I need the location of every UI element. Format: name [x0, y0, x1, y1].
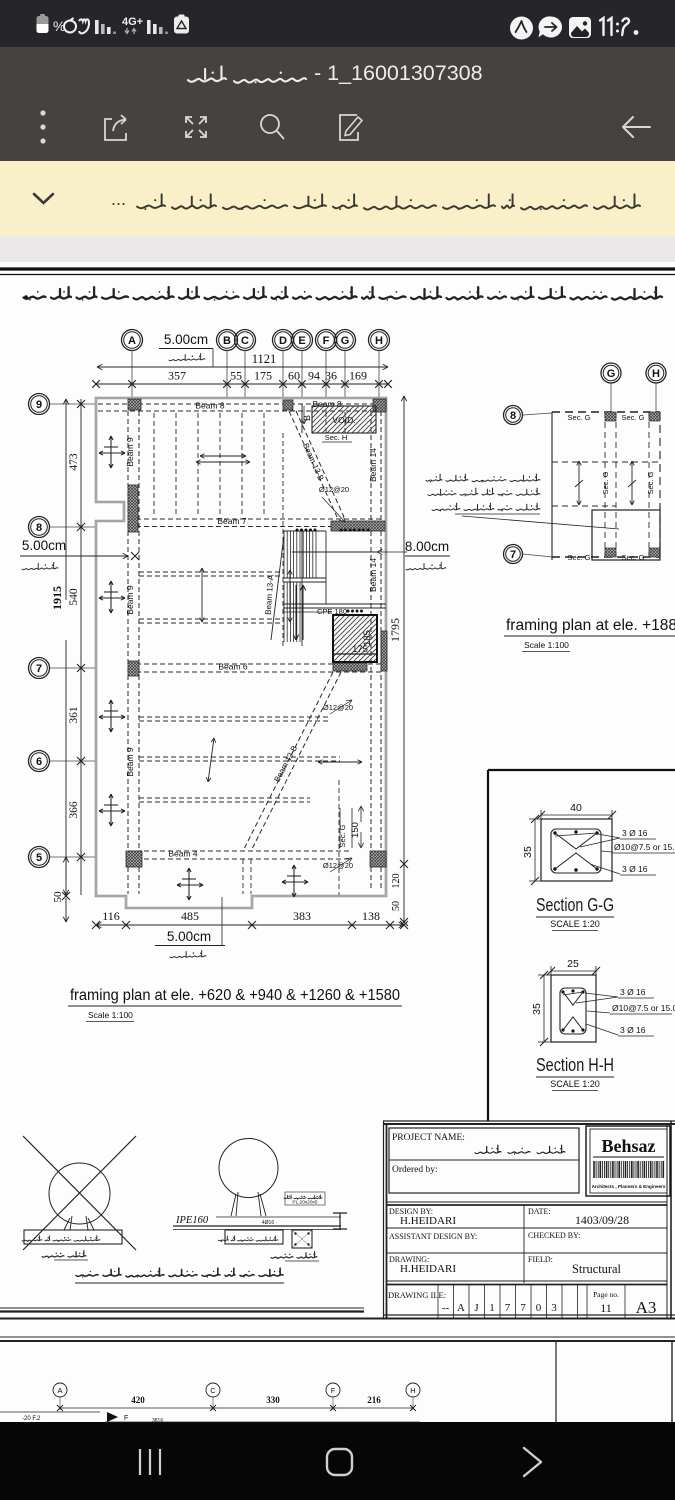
span arrows mid bay [289, 570, 291, 622]
toolbar: edit icon [340, 115, 358, 140]
title block bottom border [384, 1314, 675, 1316]
svg-text:A: A [457, 1302, 465, 1314]
section G-G dim 35 [534, 819, 536, 881]
persian note line [612, 296, 662, 299]
svg-text:Structural: Structural [572, 1261, 621, 1276]
beam 7 dashed [128, 518, 384, 520]
svg-text:1: 1 [489, 1302, 495, 1314]
grid bubble B [217, 330, 238, 351]
grid leader [226, 351, 228, 399]
small plan corner columns [605, 412, 616, 421]
svg-text:5.00cm: 5.00cm [164, 332, 208, 347]
grid leader [378, 351, 380, 399]
wrong method caption [68, 1256, 86, 1257]
dim 150 [360, 806, 362, 822]
svg-text:485: 485 [181, 909, 199, 923]
svg-text:Beam 13-A: Beam 13-A [264, 574, 276, 615]
svg-text:IPE160: IPE160 [175, 1215, 209, 1226]
svg-text:DRAWING ILE:: DRAWING ILE: [388, 1290, 446, 1300]
svg-text:framing plan at ele. +620 & +9: framing plan at ele. +620 & +940 & +1260… [70, 987, 400, 1004]
beam 13-B diagonal [289, 411, 337, 517]
dim 50 bottom left [65, 857, 67, 880]
caption underline [75, 1282, 284, 1284]
svg-text:Beam 7: Beam 7 [217, 516, 247, 526]
row leader [50, 856, 97, 858]
bottom grid bubble H [406, 1383, 420, 1397]
svg-text:G: G [341, 335, 350, 347]
section H-H rebar top [561, 990, 564, 993]
svg-text:35: 35 [522, 846, 534, 858]
svg-text:framing plan at ele. +1880: framing plan at ele. +1880 [506, 617, 675, 634]
section H-H dim 25 [551, 970, 596, 972]
svg-text:J: J [474, 1302, 479, 1314]
section G-G dim 40 [541, 814, 612, 816]
void hatched area [312, 406, 376, 433]
svg-text:Section H-H: Section H-H [536, 1055, 614, 1075]
svg-text:150: 150 [350, 822, 361, 838]
column 175 hatched [333, 615, 377, 662]
svg-text:Ø10@7.5 or 15.0: Ø10@7.5 or 15.0 [612, 1003, 675, 1013]
stair landing lines [283, 577, 326, 579]
svg-text:SCALE 1:20: SCALE 1:20 [550, 1079, 600, 1089]
svg-text:138: 138 [362, 909, 380, 923]
G col dashed into void [344, 412, 346, 433]
status: battery icon [37, 16, 49, 33]
span symbol [177, 884, 203, 886]
table mid vertical [523, 1205, 525, 1283]
grid bubble H [646, 363, 666, 383]
svg-text:PROJECT NAME:: PROJECT NAME: [392, 1133, 465, 1143]
right method beam lines [173, 1225, 341, 1227]
column A9 [128, 399, 141, 410]
toolbar title persian "readonly" [234, 78, 306, 83]
grid leader [325, 351, 327, 399]
sketch area bottom lines [0, 1307, 364, 1309]
svg-text:8: 8 [36, 522, 42, 534]
right method caption [297, 1257, 317, 1259]
title block top border [383, 1120, 675, 1122]
stair treads upper [283, 531, 285, 578]
svg-text:PL 20x20x5: PL 20x20x5 [292, 1200, 317, 1206]
section H-H dim 35 [543, 975, 545, 1042]
svg-text:Ø12@20: Ø12@20 [323, 861, 353, 870]
row leader [50, 526, 97, 528]
top rule thick [0, 267, 675, 270]
svg-text:5: 5 [36, 852, 42, 864]
svg-text:C: C [241, 335, 249, 347]
wrong method base box [24, 1230, 122, 1244]
rebar dots row 8 [296, 529, 299, 532]
grid leader [131, 351, 133, 399]
building outline wall [96, 398, 386, 908]
svg-text:A: A [57, 1386, 62, 1395]
column strip right [381, 631, 387, 671]
svg-text:4Ø16: 4Ø16 [262, 1220, 274, 1226]
svg-text:Beam 6: Beam 6 [218, 662, 248, 672]
svg-text:CHECKED BY:: CHECKED BY: [528, 1231, 580, 1240]
dim 1915 line [65, 399, 67, 600]
small plan row leaders [523, 413, 552, 415]
column H5 [370, 851, 386, 867]
toolbar: kebab menu icon [40, 110, 45, 115]
status: chat bubble icon [538, 16, 562, 37]
svg-text:6: 6 [36, 756, 42, 768]
bottom dim line [60, 1407, 413, 1409]
dim segments [96, 383, 388, 385]
grid leader [344, 351, 346, 399]
section H-H stirrup [560, 988, 586, 1034]
svg-text:Scale 1:100: Scale 1:100 [524, 640, 569, 650]
svg-text:1121: 1121 [252, 352, 277, 366]
banner persian text [594, 205, 640, 209]
section G-G outer [541, 819, 612, 881]
project persian handwriting [537, 1152, 565, 1154]
svg-text:Beam 8: Beam 8 [195, 401, 225, 411]
page gray strip [0, 236, 675, 262]
grid leader [244, 351, 246, 399]
svg-text:383: 383 [293, 909, 311, 923]
banner chevron [34, 194, 53, 203]
bottom grid bubble C [206, 1383, 220, 1397]
section G-G rebar bottom [553, 867, 556, 870]
navigation bar background [0, 1422, 675, 1500]
dim 1121 [97, 366, 264, 368]
beam 13-A diagonal [271, 535, 284, 640]
grid bubble H [369, 330, 390, 351]
svg-text:Sec. G: Sec. G [622, 413, 645, 422]
wrong method tank circle [49, 1163, 110, 1224]
toolbar: back arrow [623, 117, 650, 137]
stair arrow [295, 585, 297, 640]
svg-text:7: 7 [520, 1302, 526, 1314]
svg-text:Beam 12-B: Beam 12-B [272, 744, 299, 784]
grid bubble D [273, 330, 294, 351]
right method legs [231, 1192, 266, 1216]
svg-text:9: 9 [36, 399, 42, 411]
svg-text:Section G-G: Section G-G [536, 895, 614, 915]
svg-text:94: 94 [308, 369, 320, 383]
svg-text:G: G [607, 368, 616, 380]
beam 6 dashed [128, 663, 384, 665]
svg-text:FIELD:: FIELD: [528, 1255, 553, 1264]
rebar dots mid [347, 610, 350, 613]
bottom row divider [387, 1280, 668, 1282]
mid bay joists [139, 571, 283, 573]
svg-text:D: D [279, 335, 287, 347]
svg-text:36: 36 [325, 369, 337, 383]
svg-text:3 Ø 16: 3 Ø 16 [622, 828, 648, 838]
status bar background [0, 0, 675, 47]
status: time 11:20 persian [600, 18, 604, 35]
small plan span arrows [578, 461, 580, 505]
stair treads lower [283, 582, 285, 642]
tiny plate label [285, 1192, 325, 1205]
svg-text:5.00cm: 5.00cm [22, 538, 66, 553]
svg-text:1915: 1915 [50, 586, 64, 610]
F col dashed [325, 412, 327, 433]
svg-text:185: 185 [362, 630, 373, 646]
wrong method legs [64, 1216, 94, 1230]
small plan leaders [610, 383, 612, 412]
beam 12-B diagonal [243, 672, 333, 851]
dim 1795 [403, 396, 405, 600]
svg-text:A3: A3 [636, 1298, 657, 1317]
svg-text:Beam 14: Beam 14 [368, 558, 378, 592]
svg-text:Ordered by:: Ordered by: [392, 1165, 438, 1175]
svg-text:Beam 9: Beam 9 [125, 585, 135, 615]
section G-G stirrup [551, 829, 601, 873]
nav: back icon [524, 1448, 541, 1476]
svg-text:SCALE 1:20: SCALE 1:20 [550, 919, 600, 929]
span symbol [99, 810, 125, 812]
svg-text:Beam 9: Beam 9 [125, 437, 135, 467]
wrong method X cross [23, 1136, 136, 1250]
svg-text:H: H [652, 368, 660, 380]
column detail box [292, 1230, 312, 1248]
svg-text:F: F [331, 1386, 336, 1395]
svg-text:116: 116 [102, 909, 120, 923]
section G-G rebar top [553, 831, 556, 834]
project name box [389, 1128, 579, 1193]
small plan interior dashed [552, 461, 660, 463]
svg-text:F: F [323, 335, 330, 347]
column A8 tall [128, 485, 138, 532]
svg-text:25: 25 [567, 958, 579, 970]
behsaz logo box [586, 1126, 670, 1196]
bottom grid bubble A [53, 1383, 67, 1397]
svg-text:3 Ø 16: 3 Ø 16 [620, 987, 646, 997]
next sheet top lines [0, 1336, 675, 1338]
svg-text:60: 60 [288, 369, 300, 383]
beam 14 dashed vertical [370, 411, 372, 890]
svg-text:3816: 3816 [152, 1418, 163, 1424]
svg-text:Beam 13-B: Beam 13-B [301, 442, 326, 482]
span arrows mid2 [201, 568, 203, 622]
svg-text:Sec. G: Sec. G [568, 553, 591, 562]
svg-text:7: 7 [510, 549, 516, 561]
beam 4 dashed [128, 850, 350, 852]
stair side rails [282, 433, 284, 646]
svg-text:F: F [124, 1415, 128, 1422]
beam12 end verticals [242, 859, 244, 894]
row leader [50, 760, 97, 762]
status: photo icon [569, 17, 591, 38]
svg-text:ASSISTANT DESIGN BY:: ASSISTANT DESIGN BY: [389, 1232, 477, 1241]
bottom grid bubble F [326, 1383, 340, 1397]
svg-text:120: 120 [391, 874, 402, 889]
persian annotation tank load [510, 480, 540, 482]
svg-text:--: -- [442, 1302, 450, 1314]
nav: home icon [327, 1449, 352, 1475]
right bay vertical dashed [338, 780, 340, 895]
svg-text:7: 7 [505, 1302, 511, 1314]
next sheet right border [555, 1341, 557, 1422]
svg-text:B: B [223, 335, 231, 347]
svg-text:35: 35 [531, 1003, 543, 1015]
svg-text:H: H [375, 335, 383, 347]
svg-text:8: 8 [510, 410, 516, 422]
section H-H rebar bottom [561, 1028, 564, 1031]
svg-text:CPE 180: CPE 180 [317, 607, 347, 616]
column A5 [126, 851, 142, 867]
grid bubble G [335, 330, 356, 351]
behsaz barcode lines [593, 1161, 595, 1178]
title block right border [666, 1124, 668, 1318]
grid bubble 7 [29, 658, 50, 679]
title block divider [387, 1201, 668, 1203]
span symbol [99, 716, 125, 718]
grid bubble 9 [29, 394, 50, 415]
span symbol [99, 452, 125, 454]
svg-text:VOID.: VOID. [332, 415, 355, 425]
svg-text:7: 7 [36, 663, 42, 675]
beam end I symbol [333, 1213, 347, 1229]
svg-text:B: B [302, 415, 312, 421]
svg-text:3 Ø 16: 3 Ø 16 [620, 1025, 646, 1035]
svg-text:C: C [210, 1386, 216, 1395]
landing line right [292, 551, 377, 553]
nav: recents icon [139, 1449, 141, 1475]
grid bubble F [316, 330, 337, 351]
right method tank circle [219, 1139, 278, 1198]
small plan col lines [604, 412, 606, 557]
grid bubble C [235, 330, 256, 351]
column strip row8 [331, 521, 385, 531]
svg-text:Architects , Planners & Engine: Architects , Planners & Engineers [592, 1184, 666, 1189]
svg-text:4G+: 4G+ [122, 16, 143, 28]
svg-text:0: 0 [536, 1302, 542, 1314]
svg-text:DATE:: DATE: [528, 1207, 551, 1216]
grid bubble 7 [504, 545, 523, 564]
svg-text:3 Ø 16: 3 Ø 16 [622, 864, 648, 874]
svg-text:Sec. G: Sec. G [568, 413, 591, 422]
span arrows low bay [318, 761, 362, 763]
grid bubble 8 [504, 406, 523, 425]
svg-text:357: 357 [168, 369, 186, 383]
banner background [0, 161, 675, 236]
toolbar: search icon [261, 115, 279, 133]
svg-text:361: 361 [68, 706, 80, 724]
svg-text:50: 50 [391, 901, 402, 911]
svg-text:Sec. G: Sec. G [622, 553, 645, 562]
status: signal bars 1 [95, 20, 99, 34]
status: signal bars 2 [147, 20, 151, 34]
grid bubble 6 [29, 751, 50, 772]
toolbar background [0, 47, 675, 161]
grid leader [301, 351, 303, 399]
svg-text:366: 366 [68, 801, 80, 819]
right method base box [225, 1230, 283, 1244]
document page background [0, 262, 675, 1422]
dim segments left [80, 399, 82, 895]
svg-text:Beam 14: Beam 14 [368, 448, 378, 482]
grid bubble G [601, 363, 621, 383]
svg-text:Behsaz: Behsaz [602, 1136, 656, 1156]
top rule thin [0, 274, 675, 276]
small plan boundary [551, 412, 553, 560]
column strip under 175 [333, 663, 367, 671]
span symbol [99, 597, 125, 599]
svg-text:8.00cm: 8.00cm [405, 539, 449, 554]
span arrows low2 [208, 738, 214, 782]
svg-text:Ø10@7.5 or 15.0: Ø10@7.5 or 15.0 [614, 842, 675, 852]
svg-text:Page no.: Page no. [593, 1290, 619, 1299]
column H9 [373, 399, 386, 412]
svg-text:40: 40 [570, 802, 582, 814]
svg-text:Ø12@20: Ø12@20 [323, 703, 353, 712]
svg-text:Sec. H: Sec. H [325, 433, 348, 442]
bottom dim chain [96, 924, 404, 926]
svg-text:175: 175 [254, 369, 272, 383]
svg-text:Ø12@20: Ø12@20 [319, 485, 349, 494]
grid leader [282, 351, 284, 399]
title block left border [383, 1121, 385, 1318]
span arrows top bay [196, 461, 250, 463]
grid bubble A [122, 330, 143, 351]
sections sheet border [487, 770, 489, 1121]
beam 8 dashed [98, 403, 384, 405]
top bay joists [153, 413, 155, 517]
svg-text:-20 F.2: -20 F.2 [22, 1416, 41, 1422]
svg-text:216: 216 [367, 1395, 381, 1405]
svg-text:Beam 4: Beam 4 [168, 849, 198, 859]
svg-text:540: 540 [68, 588, 80, 606]
grid bubble 8 [29, 517, 50, 538]
svg-text:Sec. G: Sec. G [601, 471, 610, 494]
svg-text:H.HEIDARI: H.HEIDARI [400, 1263, 456, 1275]
svg-text:- 1_16001307308: - 1_16001307308 [314, 61, 483, 85]
tank outline [592, 510, 660, 560]
annotation leader [462, 516, 619, 529]
svg-text:420: 420 [131, 1395, 145, 1405]
svg-text:11: 11 [600, 1301, 612, 1315]
section H-H outer [551, 975, 596, 1042]
svg-text:473: 473 [68, 453, 80, 471]
lower bays joists [139, 716, 330, 718]
svg-text:E: E [298, 335, 305, 347]
svg-text:169: 169 [349, 369, 367, 383]
svg-text:Sec. G: Sec. G [646, 471, 655, 494]
toolbar: fullscreen icon [186, 117, 193, 124]
E col dashed [301, 412, 303, 433]
grid bubble E [292, 330, 313, 351]
svg-text:H.HEIDARI: H.HEIDARI [400, 1215, 456, 1227]
row leader [50, 403, 97, 405]
toolbar: share icon [105, 119, 126, 140]
svg-text:H: H [410, 1386, 415, 1395]
status: circle 8 icon [510, 17, 533, 40]
svg-text:330: 330 [266, 1395, 280, 1405]
column D9 [283, 400, 293, 410]
svg-text:3: 3 [551, 1302, 557, 1314]
column A7 [128, 661, 139, 676]
status: battery saver badge [174, 17, 189, 34]
grid bubble 5 [29, 847, 50, 868]
svg-text:55: 55 [230, 369, 242, 383]
svg-text:A: A [128, 335, 136, 347]
beam 9 dashed vertical [127, 411, 129, 894]
row leader [50, 667, 97, 669]
svg-text:Scale 1:100: Scale 1:100 [88, 1010, 133, 1020]
svg-text:1795: 1795 [388, 618, 402, 642]
svg-text:Beam 9: Beam 9 [125, 747, 135, 777]
svg-text:...: ... [111, 189, 126, 209]
svg-text:5.00cm: 5.00cm [167, 929, 211, 944]
svg-text:1403/09/28: 1403/09/28 [575, 1213, 629, 1227]
span symbol [282, 881, 308, 883]
main caption persian [259, 1275, 283, 1277]
